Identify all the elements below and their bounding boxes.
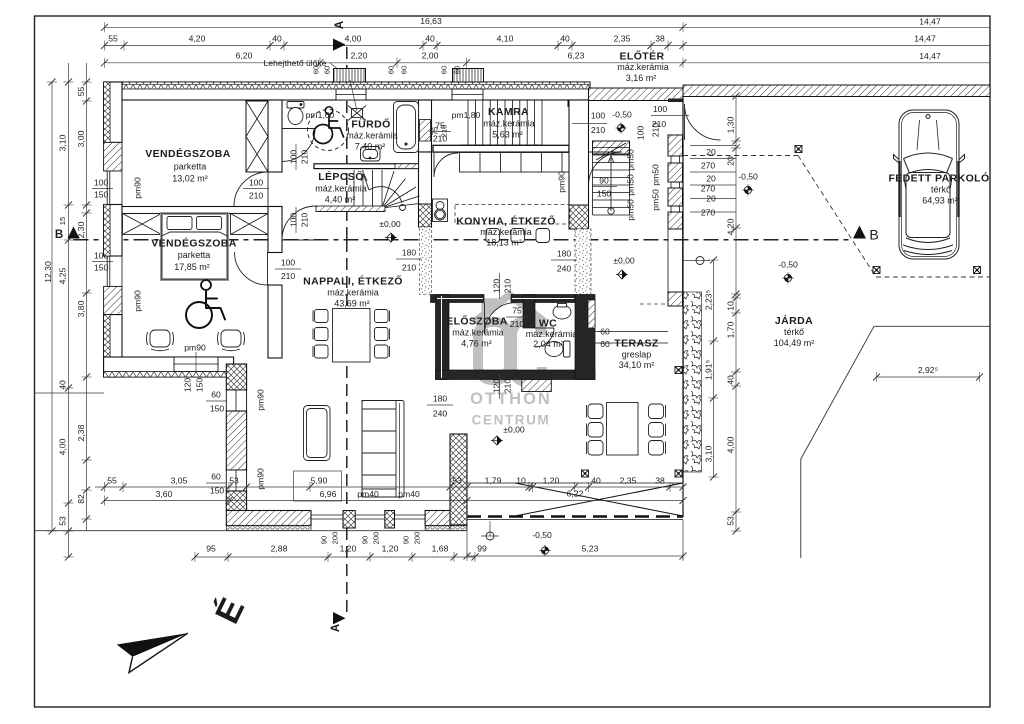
svg-text:210: 210 <box>300 150 310 165</box>
watermark OTTHON CENTRUM <box>470 390 552 428</box>
door dark bars <box>900 161 959 217</box>
svg-text:150: 150 <box>210 404 225 414</box>
left chain line 12,30 <box>51 82 53 531</box>
dashed roofline over terrace NW <box>640 303 668 305</box>
wardrobe left with X <box>123 214 162 235</box>
svg-text:200: 200 <box>413 532 422 545</box>
window parapet hatch room1 (pm90) <box>104 142 122 171</box>
svg-text:60: 60 <box>600 339 610 349</box>
north wall west segment <box>431 295 485 303</box>
left exterior wall : upper segment <box>104 82 122 142</box>
svg-text:10: 10 <box>516 476 526 486</box>
svg-text:14,47: 14,47 <box>919 51 941 61</box>
svg-text:LÉPCSŐ: LÉPCSŐ <box>318 170 364 183</box>
svg-text:150: 150 <box>94 190 109 200</box>
window pm40 sill lines 2 <box>355 514 385 516</box>
svg-text:120: 120 <box>492 279 502 294</box>
window in bottom wall room2 (pm90) <box>174 357 218 372</box>
shower symbol <box>348 106 366 121</box>
svg-text:210: 210 <box>281 271 296 281</box>
circle column mark terrace NE <box>696 257 704 265</box>
quarter lights <box>904 178 952 190</box>
washbasin fürdő <box>361 147 381 162</box>
svg-text:TERASZ: TERASZ <box>614 338 659 350</box>
svg-text:2,00: 2,00 <box>422 51 439 61</box>
terrace chairs right <box>649 404 666 455</box>
kitchen counter row <box>460 153 570 173</box>
svg-text:40: 40 <box>272 34 282 44</box>
wardrobe right with X <box>231 214 269 235</box>
section marker B right <box>853 226 879 243</box>
svg-text:53: 53 <box>452 476 462 486</box>
porch slab hatched (ELŐTÉR roof edge) <box>589 88 684 101</box>
svg-text:-0,50: -0,50 <box>532 530 552 540</box>
bottom chain line (y 557) <box>195 556 475 558</box>
svg-text:38: 38 <box>655 476 665 486</box>
window outline around 5,90 <box>294 471 342 501</box>
right chain x=713 <box>713 260 715 477</box>
bathroom east wall <box>419 100 432 152</box>
svg-text:3,00: 3,00 <box>76 130 86 147</box>
car body <box>899 110 959 259</box>
window pm40 sill lines 1 <box>311 514 343 516</box>
svg-text:38: 38 <box>655 34 665 44</box>
svg-text:1,79: 1,79 <box>485 476 502 486</box>
svg-text:20: 20 <box>706 194 716 204</box>
svg-text:16,63: 16,63 <box>420 16 442 26</box>
svg-text:2,35: 2,35 <box>614 34 631 44</box>
armchair right <box>218 330 245 351</box>
stair break line <box>596 143 626 160</box>
svg-text:34,10 m²: 34,10 m² <box>619 360 655 370</box>
svg-text:150: 150 <box>195 378 205 393</box>
window sill lines 3 <box>395 514 426 516</box>
svg-text:53: 53 <box>58 516 68 526</box>
svg-text:180: 180 <box>433 394 448 404</box>
terrain line left <box>35 392 105 394</box>
dim 2,92.5 <box>877 376 980 378</box>
bathroom south wall <box>314 164 419 169</box>
section line A (vertical dashed) <box>346 47 348 240</box>
terrace NE pier <box>668 292 683 306</box>
svg-text:6,20: 6,20 <box>236 51 253 61</box>
svg-text:20: 20 <box>726 156 736 166</box>
svg-text:NAPPALI, ÉTKEZŐ: NAPPALI, ÉTKEZŐ <box>303 275 403 288</box>
svg-text:±0,00: ±0,00 <box>379 219 401 229</box>
section line B (horizontal dash-dot) <box>74 239 853 241</box>
svg-text:6,96: 6,96 <box>320 489 337 499</box>
svg-text:3,05: 3,05 <box>171 476 188 486</box>
svg-text:-0,50: -0,50 <box>738 172 758 182</box>
svg-text:100: 100 <box>94 178 109 188</box>
svg-text:4,00: 4,00 <box>345 34 362 44</box>
svg-text:60: 60 <box>400 66 409 74</box>
top wall notch near kamra <box>568 100 576 107</box>
svg-text:3,16 m²: 3,16 m² <box>626 73 657 83</box>
svg-text:40: 40 <box>726 375 736 385</box>
svg-text:B: B <box>869 227 878 243</box>
left block bottom wall <box>104 357 234 377</box>
svg-text:VENDÉGSZOBA: VENDÉGSZOBA <box>145 147 231 160</box>
target circle mark <box>486 532 494 540</box>
kitchen west wall <box>419 152 432 227</box>
svg-text:pm50: pm50 <box>651 164 661 186</box>
svg-text:20: 20 <box>706 174 716 184</box>
svg-text:pm50: pm50 <box>626 199 636 221</box>
ELŐSZOBA/WC dark walls <box>431 295 596 380</box>
svg-text:14,47: 14,47 <box>919 17 941 27</box>
svg-text:pm1,80: pm1,80 <box>452 110 481 120</box>
entrance door jamb top <box>668 99 683 103</box>
svg-text:FÜRDŐ: FÜRDŐ <box>351 118 390 131</box>
svg-text:15: 15 <box>58 217 67 225</box>
door WC (75/210) <box>535 328 554 347</box>
svg-text:B: B <box>55 229 63 241</box>
svg-text:100: 100 <box>289 150 299 165</box>
svg-text:100: 100 <box>289 213 299 228</box>
svg-text:pm1,60: pm1,60 <box>306 110 335 120</box>
mini ladder dims 20/270 <box>690 145 736 147</box>
svg-text:100: 100 <box>653 104 668 114</box>
svg-text:3,10: 3,10 <box>58 134 68 151</box>
svg-text:A: A <box>330 624 342 632</box>
svg-text:térkő: térkő <box>931 185 951 195</box>
svg-text:200: 200 <box>372 532 381 545</box>
section marker A top <box>333 21 346 51</box>
svg-text:pm40: pm40 <box>398 489 420 499</box>
wheelchair turning circle (dashed) <box>308 110 349 151</box>
svg-text:270: 270 <box>701 184 716 194</box>
svg-text:4,00: 4,00 <box>726 436 736 453</box>
south wall <box>436 370 596 380</box>
svg-text:210: 210 <box>249 191 264 201</box>
svg-text:270: 270 <box>701 208 716 218</box>
svg-text:210: 210 <box>503 379 513 394</box>
svg-text:40: 40 <box>560 34 570 44</box>
svg-text:2,20: 2,20 <box>351 51 368 61</box>
svg-text:ELŐSZOBA: ELŐSZOBA <box>446 315 508 328</box>
svg-text:13,02 m²: 13,02 m² <box>172 174 208 184</box>
svg-text:180: 180 <box>557 249 572 259</box>
svg-text:4,40 m²: 4,40 m² <box>325 195 356 205</box>
corridor west wall (guest rooms east wall) <box>268 100 282 172</box>
inner dim line row 2 (y 500.5) <box>104 500 467 502</box>
svg-text:pm90: pm90 <box>557 171 567 193</box>
roof <box>906 173 950 238</box>
coffee table <box>304 406 331 461</box>
svg-text:FEDETT PARKOLÓ: FEDETT PARKOLÓ <box>888 172 989 185</box>
hood crease lines <box>917 120 939 150</box>
bathtub <box>394 102 419 153</box>
svg-text:parketta: parketta <box>178 250 211 260</box>
svg-text:2,35: 2,35 <box>620 476 637 486</box>
svg-text:6,23: 6,23 <box>568 51 585 61</box>
wall between előszoba and WC <box>523 295 535 329</box>
svg-text:máz.kerámia: máz.kerámia <box>617 62 669 72</box>
door kitchen from hall (100/210) <box>589 152 623 186</box>
stair cut hatch strip below winder <box>316 206 385 212</box>
svg-text:parketta: parketta <box>174 162 207 172</box>
left wall mid segment <box>104 205 122 257</box>
left wall lower segment <box>104 315 122 377</box>
svg-text:3,60: 3,60 <box>156 489 173 499</box>
svg-text:210: 210 <box>402 263 417 273</box>
svg-text:200: 200 <box>331 532 340 545</box>
window glass room1 <box>107 171 122 205</box>
door lépcső (100/210) <box>282 206 316 240</box>
svg-text:A: A <box>334 21 346 29</box>
section marker A bottom <box>330 612 346 632</box>
svg-text:40: 40 <box>425 34 435 44</box>
hatch on WC east wall <box>588 300 595 328</box>
svg-text:100: 100 <box>249 178 264 188</box>
svg-text:2,04 m²: 2,04 m² <box>533 339 564 349</box>
svg-text:ELŐTÉR: ELŐTÉR <box>620 50 665 63</box>
svg-text:máz.kerámia: máz.kerámia <box>526 329 578 339</box>
svg-text:pm90: pm90 <box>256 468 266 490</box>
chairs left column <box>313 310 328 359</box>
SE corner pillar <box>450 434 467 525</box>
chimney block 2 (60x60) <box>453 69 484 83</box>
svg-text:máz.kerámia: máz.kerámia <box>483 119 535 129</box>
stipple strip below kitchen west wall <box>420 227 432 295</box>
svg-text:4,10: 4,10 <box>497 34 514 44</box>
shaft with cross bracing in room1 <box>246 101 268 172</box>
terrace small wall stub 60x60 <box>595 331 668 333</box>
chairs right column <box>375 310 390 359</box>
svg-text:máz.kerámia: máz.kerámia <box>315 184 367 194</box>
stair walk line with start circle <box>610 158 612 211</box>
svg-text:60: 60 <box>312 66 321 74</box>
svg-text:150: 150 <box>94 263 109 273</box>
svg-text:100: 100 <box>591 111 606 121</box>
svg-text:210: 210 <box>300 213 310 228</box>
svg-text:14,47: 14,47 <box>914 34 936 44</box>
left chain line inner <box>86 63 88 531</box>
dim 5,23 <box>467 555 683 557</box>
door előszoba (120/210) <box>485 303 517 335</box>
svg-text:53: 53 <box>726 516 736 526</box>
svg-text:1,68: 1,68 <box>432 544 449 554</box>
dim row 3 line <box>105 62 991 64</box>
window in top wall (bathroom pm60) <box>336 89 366 100</box>
terrace table <box>607 403 639 456</box>
door bathroom (100/210) <box>282 129 315 162</box>
svg-text:150: 150 <box>597 189 612 199</box>
svg-text:60: 60 <box>600 327 610 337</box>
dim row 1 line <box>105 26 991 28</box>
svg-text:máz.kerámia: máz.kerámia <box>480 227 532 237</box>
svg-text:pm90: pm90 <box>133 177 143 199</box>
svg-text:40: 40 <box>58 380 68 390</box>
hatch block right of stairs top <box>395 164 419 169</box>
terrace chairs left <box>587 404 604 455</box>
svg-text:5,63 m²: 5,63 m² <box>492 130 523 140</box>
washbasin WC <box>553 304 571 320</box>
pier 2 <box>668 163 683 182</box>
long X glazing symbol <box>515 483 683 516</box>
svg-text:pm40: pm40 <box>357 489 379 499</box>
plant strip along terrace <box>684 292 702 472</box>
svg-text:KONYHA, ÉTKEZŐ: KONYHA, ÉTKEZŐ <box>456 215 556 228</box>
mullion pier 1 <box>343 511 355 529</box>
svg-text:JÁRDA: JÁRDA <box>775 314 813 327</box>
pier 3 <box>668 188 683 206</box>
window glass room2 <box>107 256 122 286</box>
svg-text:43,69 m²: 43,69 m² <box>334 299 370 309</box>
svg-text:-0,50: -0,50 <box>778 260 798 270</box>
room divider wall between guest rooms <box>122 207 282 214</box>
svg-text:60: 60 <box>323 66 332 74</box>
kamra south wall <box>433 145 569 152</box>
svg-text:máz.kerámia: máz.kerámia <box>452 328 504 338</box>
svg-text:55: 55 <box>107 476 117 486</box>
svg-text:1,91⁵: 1,91⁵ <box>704 359 714 380</box>
door entrance swings out (100/210) <box>685 104 721 140</box>
svg-text:210: 210 <box>440 125 449 138</box>
window pm50 lines <box>670 156 672 163</box>
svg-text:4,25: 4,25 <box>58 267 68 284</box>
svg-text:60: 60 <box>387 66 396 74</box>
svg-text:240: 240 <box>433 409 448 419</box>
svg-text:3,10: 3,10 <box>704 445 714 462</box>
window parapet hatch room2 (pm90) <box>104 286 122 314</box>
svg-text:2,88: 2,88 <box>271 544 288 554</box>
svg-text:greslap: greslap <box>622 350 652 360</box>
svg-text:120: 120 <box>492 379 502 394</box>
svg-text:WC: WC <box>539 318 557 330</box>
svg-text:1,30: 1,30 <box>726 116 736 133</box>
top exterior wall with insulation <box>105 82 591 100</box>
svg-text:±0,00: ±0,00 <box>613 256 635 266</box>
kitchen stools <box>486 229 550 243</box>
svg-text:5,90: 5,90 <box>311 476 328 486</box>
right chain x=736 <box>735 96 737 531</box>
svg-text:KAMRA: KAMRA <box>488 106 529 118</box>
toilet WC <box>545 341 570 357</box>
svg-text:2,23⁵: 2,23⁵ <box>704 289 714 310</box>
parking dashed boundary <box>683 155 798 157</box>
svg-text:40: 40 <box>591 476 601 486</box>
svg-text:12,30: 12,30 <box>43 261 53 283</box>
kitchen sink unit <box>433 199 448 222</box>
mullion pier 2 <box>385 511 395 529</box>
svg-text:-0,50: -0,50 <box>612 110 632 120</box>
svg-text:53: 53 <box>229 476 239 486</box>
nappali bottom wall segment 2 <box>425 511 451 526</box>
door room2 (100/210) <box>235 252 268 285</box>
door kamra (75/210) <box>434 153 458 177</box>
svg-text:82: 82 <box>76 494 86 504</box>
wall below piers <box>667 229 669 292</box>
svg-text:90: 90 <box>361 536 370 544</box>
window in top wall (kamra pm1,80) <box>452 89 483 100</box>
svg-text:VENDÉGSZOBA: VENDÉGSZOBA <box>151 237 237 250</box>
svg-text:4,20: 4,20 <box>726 218 736 235</box>
door room1 (100/210) <box>234 172 268 206</box>
svg-text:2,92⁵: 2,92⁵ <box>918 365 939 375</box>
svg-text:60: 60 <box>211 390 221 400</box>
pier 4 <box>668 212 683 229</box>
winder walk line arc with start circle <box>369 187 402 203</box>
nappali bottom wall segment 1 <box>226 511 311 526</box>
wall above main stairs <box>593 141 630 154</box>
stipple strip below porch west wall <box>575 229 591 295</box>
svg-text:95: 95 <box>206 544 216 554</box>
kamra east / porch west wall <box>569 100 589 229</box>
svg-text:100: 100 <box>281 258 296 268</box>
dim row 2 line <box>105 45 991 47</box>
terrace east edge line <box>682 97 684 518</box>
dining table <box>333 309 371 363</box>
svg-text:104,49 m²: 104,49 m² <box>774 338 815 348</box>
sofa <box>362 401 404 498</box>
svg-text:2,38: 2,38 <box>76 424 86 441</box>
svg-text:55: 55 <box>76 87 86 97</box>
svg-text:210: 210 <box>510 319 525 329</box>
svg-text:térkő: térkő <box>784 327 804 337</box>
svg-text:1,20: 1,20 <box>382 544 399 554</box>
lintel lines on dark walls <box>437 296 574 378</box>
double bed <box>162 214 228 280</box>
svg-text:3,80: 3,80 <box>76 300 86 317</box>
svg-text:6,22: 6,22 <box>567 489 584 499</box>
svg-text:120: 120 <box>183 378 193 393</box>
svg-text:4,00: 4,00 <box>58 438 68 455</box>
svg-text:240: 240 <box>557 264 572 274</box>
property boundary polyline <box>801 326 990 558</box>
svg-text:máz.kerámia: máz.kerámia <box>327 288 379 298</box>
svg-text:90: 90 <box>402 536 411 544</box>
svg-text:60: 60 <box>211 472 221 482</box>
nappali west wall <box>226 364 246 390</box>
svg-text:pm90: pm90 <box>256 389 266 411</box>
svg-text:17,85 m²: 17,85 m² <box>174 262 210 272</box>
terrace south thick dashed edge <box>467 515 683 518</box>
north wall east segment <box>511 295 575 303</box>
svg-text:210: 210 <box>503 279 513 294</box>
svg-text:máz.kerámia: máz.kerámia <box>346 131 398 141</box>
svg-text:100: 100 <box>636 126 646 141</box>
svg-text:pm90: pm90 <box>184 343 206 353</box>
WC east wall <box>575 295 595 380</box>
east exterior wall: entrance + pm50 piers <box>668 99 683 307</box>
svg-text:99: 99 <box>477 544 487 554</box>
inner dim line row (y 487) <box>95 486 467 488</box>
leader line to shower <box>350 80 357 111</box>
west wall <box>436 295 450 380</box>
kitchen island dashed <box>455 205 570 225</box>
svg-text:pm50: pm50 <box>626 149 636 171</box>
roof edge strip right <box>683 85 990 97</box>
windshield band <box>904 153 953 159</box>
svg-text:60: 60 <box>453 66 462 74</box>
svg-text:64,93 m²: 64,93 m² <box>922 196 958 206</box>
svg-text:90: 90 <box>320 536 329 544</box>
svg-text:1,20: 1,20 <box>543 476 560 486</box>
armchair left <box>147 330 174 351</box>
svg-text:pm50: pm50 <box>626 174 636 196</box>
svg-text:±0,00: ±0,00 <box>503 425 525 435</box>
svg-text:55: 55 <box>108 34 118 44</box>
svg-text:210: 210 <box>591 125 606 135</box>
svg-text:210: 210 <box>651 123 661 138</box>
svg-text:75: 75 <box>512 306 522 316</box>
svg-text:60: 60 <box>440 66 449 74</box>
wheelchair symbol room2 <box>186 280 225 328</box>
svg-text:pm90: pm90 <box>133 290 143 312</box>
chimney block 1 (60x60) <box>334 69 366 83</box>
